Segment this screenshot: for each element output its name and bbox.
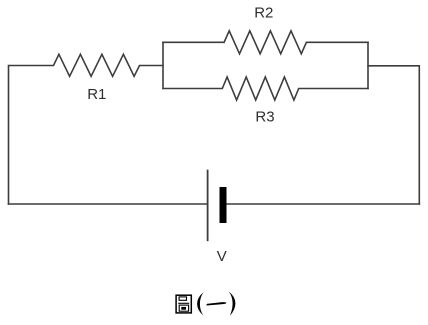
svg-text:R1: R1 [87, 86, 106, 103]
svg-text:R3: R3 [255, 108, 274, 125]
svg-text:R2: R2 [254, 4, 273, 21]
svg-text:V: V [217, 248, 227, 265]
